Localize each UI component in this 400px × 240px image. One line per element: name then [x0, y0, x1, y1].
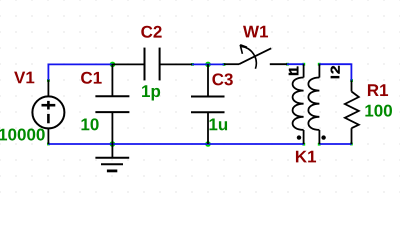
label R1 [368, 84, 388, 96]
phase dot of L1 [297, 135, 301, 139]
wire bottom secondary L2 to R1 [319, 143, 352, 145]
node dot C2 right pin [191, 63, 194, 66]
winding label I2 [331, 66, 340, 78]
wire C2 right to W1 left [192, 63, 224, 65]
node dot L1 bottom pin [302, 143, 305, 146]
node dot L1 top pin [302, 63, 305, 66]
node dot ground junction [110, 141, 116, 147]
node dot W1 right pin [286, 63, 289, 66]
node dot V1 top pin [47, 79, 50, 82]
wire V1 top stub vertical [47, 64, 49, 80]
phase dot of L2 [321, 135, 325, 139]
resistor R1 [345, 81, 359, 145]
capacitor C1 [95, 64, 129, 144]
node A junction C1/C2 top [110, 62, 116, 68]
ground [95, 144, 129, 171]
label C3 [212, 73, 232, 85]
node dot C3 top junction [205, 62, 211, 68]
label C2 [141, 26, 161, 38]
switch W1 [224, 45, 287, 69]
transformer K1 winding L1 [293, 64, 304, 144]
node dot R1 top pin [350, 79, 353, 82]
value 100 of R1 [365, 105, 392, 117]
value 1u of C3 [209, 119, 227, 131]
value 10 of C1 [81, 118, 98, 130]
node dot W1 left pin [223, 63, 226, 66]
label C1 [81, 72, 102, 84]
value 10000 of V1 [0, 129, 45, 141]
label W1 [243, 26, 268, 38]
node dot C3 bottom junction [205, 141, 211, 147]
wire L2 top to R1 top [319, 63, 351, 80]
wire bottom primary V1 to L1 [48, 143, 304, 145]
node dot V1 bottom pin [47, 143, 50, 146]
source V1 [32, 80, 64, 144]
wire top left horizontal V1 to node A [48, 63, 113, 65]
node dot L2 top pin [318, 63, 321, 66]
label K1 [296, 151, 316, 163]
node dot R1 bottom pin [350, 143, 353, 146]
value 1p of C2 [142, 85, 160, 100]
transformer K1 winding L2 [308, 64, 319, 144]
node dot L2 bottom pin [318, 143, 321, 146]
wire W1 right to L1 top [287, 63, 304, 65]
capacitor C2 [113, 48, 193, 81]
label V1 [14, 72, 34, 84]
capacitor C3 [191, 64, 225, 144]
winding label I1 [289, 67, 299, 76]
